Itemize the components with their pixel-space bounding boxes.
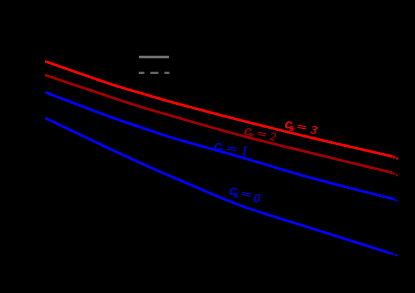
curve CB=3 solid red xyxy=(45,61,393,156)
label CB=3 xyxy=(284,117,319,137)
curve CB=1 dashed end xyxy=(393,199,398,201)
label CB=2 xyxy=(243,123,277,143)
curve CB=0 dashed end xyxy=(391,254,398,256)
legend solid line xyxy=(139,56,169,59)
curve CB=2 dashed end xyxy=(393,173,398,176)
curve CB=2 solid darkred xyxy=(45,75,393,173)
label CB=1 xyxy=(213,138,248,158)
label CB=0 xyxy=(228,182,263,206)
curve CB=3 dashed end xyxy=(393,157,398,159)
legend dashed line xyxy=(139,72,170,74)
curve CB=1 solid blue xyxy=(45,92,393,199)
curve CB=0 solid blue xyxy=(45,118,391,254)
